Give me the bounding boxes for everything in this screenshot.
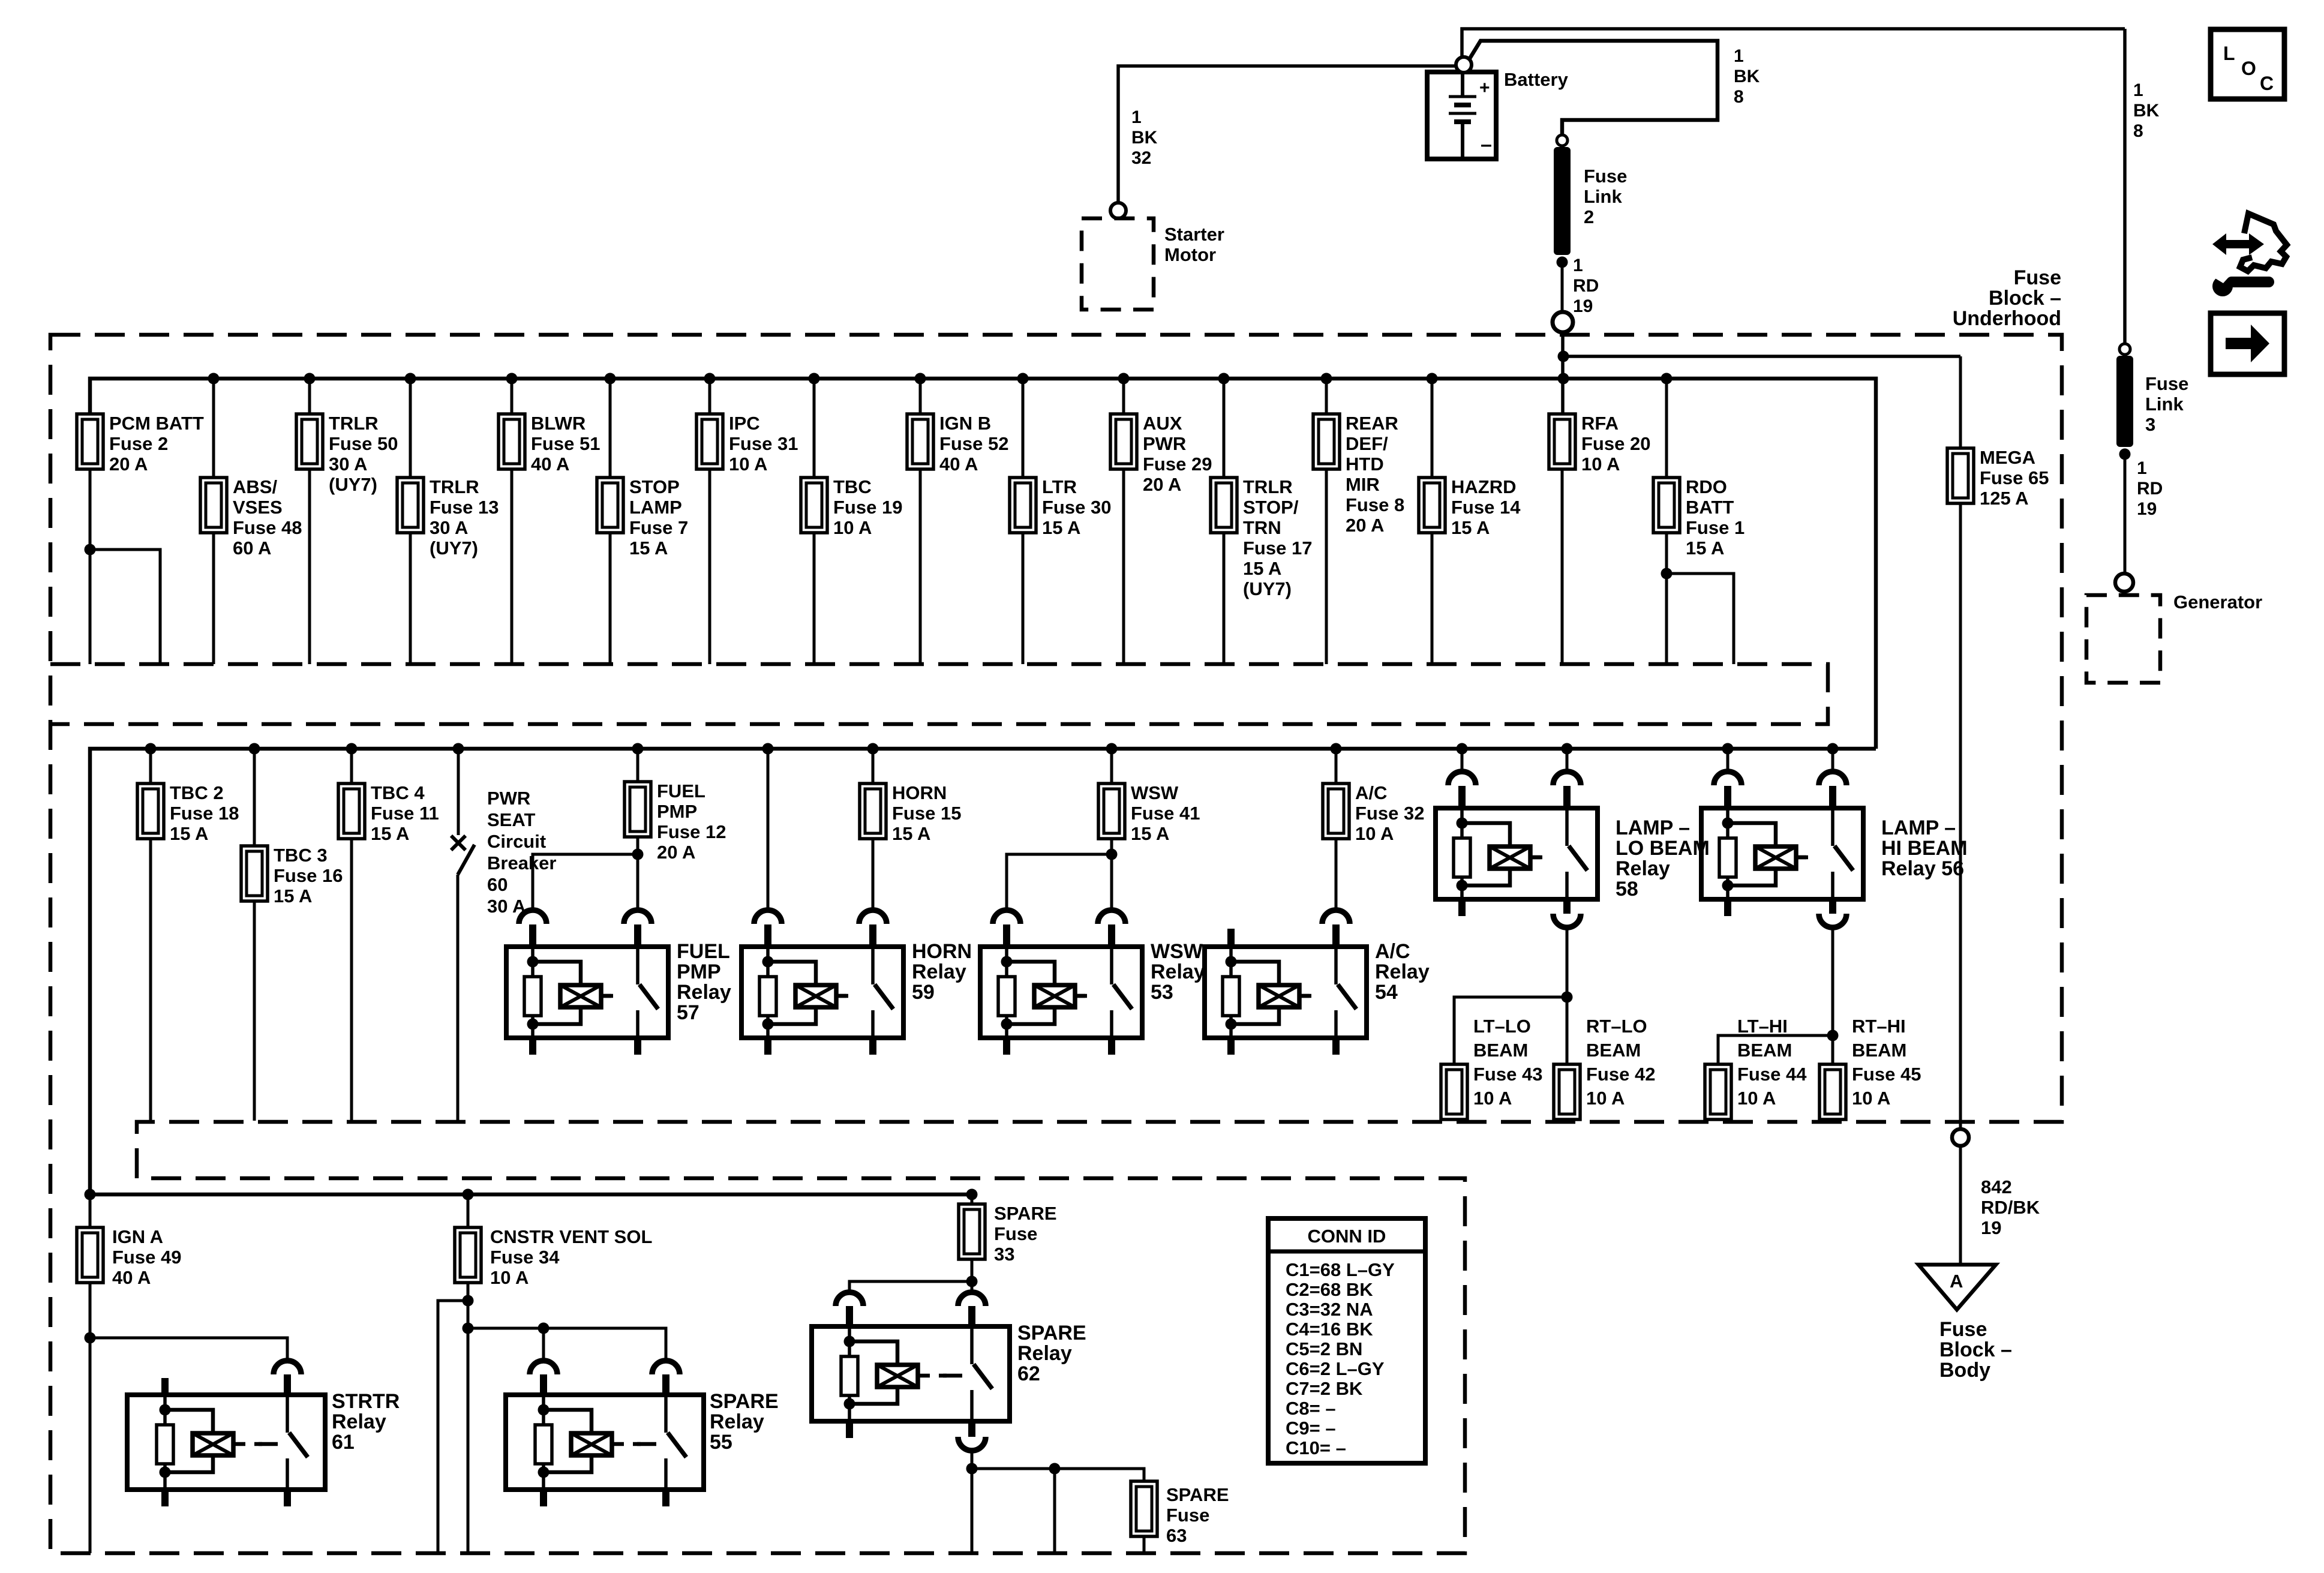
relay 57 FUEL PMP [506, 910, 668, 1055]
wire relay 56 output to HI BEAM fuses [1831, 927, 1834, 1064]
wire battery to fuse link 3 (top) [1462, 29, 2125, 57]
relay 61 bottom stubs [161, 1490, 169, 1506]
generator terminal [2115, 574, 2133, 592]
relay 54 A/C [1205, 910, 1367, 1055]
svg-text:–: – [1481, 133, 1492, 156]
wire fuse F8 [1325, 379, 1328, 414]
relay 58 LAMP - LO BEAM [1436, 743, 1598, 928]
svg-text:Battery: Battery [1504, 69, 1569, 90]
fuse F41 WSW [1098, 784, 1125, 839]
fuse link 3 terminal [2119, 344, 2130, 355]
LOC icon box [2211, 29, 2284, 99]
svg-text:C3=32 NA: C3=32 NA [1286, 1299, 1373, 1320]
bus 1 [90, 379, 1876, 749]
fuse F33 SPARE [959, 1204, 985, 1259]
generator (dashed box) [2086, 595, 2160, 683]
relay 62 SPARE [812, 1292, 1010, 1421]
wire fuse F45 RT-HI BEAM to edge [1831, 1119, 1834, 1121]
wire fuse F44 LT-HI BEAM to edge [1717, 1119, 1720, 1121]
fuse F51 BLWR [499, 414, 525, 469]
battery positive terminal [1456, 57, 1472, 73]
svg-text:C1=68 L–GY: C1=68 L–GY [1286, 1259, 1395, 1280]
relay 62 bottom stubs + output [846, 1421, 853, 1438]
wire PCM BATT branch [89, 469, 92, 664]
fuse F11 TBC 4 [338, 784, 365, 839]
node: fuse link 2 output [1557, 257, 1568, 268]
svg-text:CONN ID: CONN ID [1308, 1226, 1386, 1247]
fuse F20 RFA [1549, 414, 1575, 469]
fuse F19 TBC [801, 478, 827, 533]
svg-text:+: + [1479, 78, 1490, 98]
svg-text:C6=2 L–GY: C6=2 L–GY [1286, 1358, 1385, 1379]
fuse F48 ABS/VSES [200, 478, 227, 533]
wire relay 62 output [971, 1451, 974, 1553]
node on bus 1 [1558, 373, 1569, 385]
wire fuse 63 to edge [1143, 1536, 1146, 1553]
wire 842 RD/BK 19 [1959, 1146, 1962, 1265]
Fuse Block - Underhood outline (dashed) [50, 335, 2062, 1553]
wire fuse F42 RT-LO BEAM to edge [1566, 1119, 1569, 1121]
fuse F50 TRLR [296, 414, 323, 469]
relay 56 LAMP - HI BEAM [1701, 743, 1863, 928]
svg-text:Generator: Generator [2173, 592, 2262, 613]
wire fuse F18 TBC 2 [149, 749, 152, 784]
fuse F34 CNSTR VENT SOL [455, 1227, 481, 1283]
fuse F32 A/C [1323, 784, 1349, 839]
fuse F17 TRLR STOP/TRN [1211, 478, 1237, 533]
fuse F1 RDO BATT [1653, 478, 1680, 533]
wire inlet to bus 1 [1561, 332, 1565, 414]
wire RDO BATT branch [1665, 379, 1668, 478]
fuse link 2 [1554, 147, 1571, 255]
wire fuse F12 FUEL PMP feed [636, 749, 639, 782]
fuse F31 IPC [696, 414, 723, 469]
wire fuse F43 LT-LO BEAM to edge [1453, 1119, 1456, 1121]
wire fuse F33 SPARE [971, 1194, 974, 1204]
bus 3 [90, 1193, 977, 1197]
fuse F44 LT-HI BEAM [1705, 1064, 1731, 1119]
fuse F52 IGN B [907, 414, 933, 469]
svg-text:L: L [2223, 43, 2235, 64]
wire fuse F13 [409, 379, 412, 478]
svg-text:C5=2 BN: C5=2 BN [1286, 1338, 1362, 1359]
wire fuse F52 [919, 379, 922, 414]
svg-text:C: C [2260, 73, 2274, 94]
inner dashed separation (box1 bottom / box2 top) [50, 664, 1828, 724]
next-page arrow icon box [2211, 313, 2284, 374]
starter motor (dashed box) [1082, 218, 1154, 310]
wire fuse F17 [1223, 379, 1226, 478]
wire fuse F50 [308, 379, 311, 414]
svg-text:C9= –: C9= – [1286, 1418, 1336, 1439]
fuse F43 LT-LO BEAM [1441, 1064, 1467, 1119]
fuse F16 TBC 3 [241, 846, 268, 901]
wire fuse F16 TBC 3 [253, 749, 256, 846]
wire fuse F48 [212, 379, 215, 478]
svg-text:O: O [2241, 58, 2256, 79]
battery [1427, 72, 1496, 159]
svg-text:StarterMotor: StarterMotor [1164, 224, 1224, 265]
svg-text:C7=2 BK: C7=2 BK [1286, 1378, 1363, 1399]
fuse F18 TBC 2 [137, 784, 164, 839]
wire IGN A branch to relay 61 [90, 1338, 287, 1361]
node: fuse link 3 output [2119, 449, 2131, 460]
relay 55 SPARE [506, 1361, 704, 1490]
wire fuse F15 HORN feed [872, 749, 875, 784]
bus 2 [90, 749, 1876, 1194]
wire CNSTR branch to relay 55 [468, 1328, 666, 1361]
fuse F49 IGN A [77, 1227, 103, 1283]
wire fuse link 2 to fuse block [1561, 262, 1564, 313]
circuit breaker 60 PWR SEAT [451, 743, 475, 1121]
svg-text:C2=68 BK: C2=68 BK [1286, 1279, 1373, 1300]
fuse F45 RT-HI BEAM [1819, 1064, 1846, 1119]
relay 55 bottom stubs [540, 1490, 547, 1506]
svg-text:C10= –: C10= – [1286, 1437, 1346, 1458]
wire fuse F14 [1431, 379, 1434, 478]
wire jog to relay coil [533, 854, 638, 911]
wire fuse F31 [708, 379, 711, 414]
fuse block body connector A (triangle) [1918, 1265, 1996, 1310]
wire fuse F19 [813, 379, 816, 478]
fuse F63 SPARE [1131, 1481, 1157, 1536]
fuse F13 TRLR [397, 478, 424, 533]
relay 59 HORN [741, 910, 903, 1055]
fuse F29 AUX PWR [1110, 414, 1137, 469]
starter motor terminal [1110, 203, 1126, 218]
wire battery to starter motor [1118, 66, 1456, 203]
node: feed junction above bus 1 [1558, 351, 1569, 362]
fuse link 3 [2116, 356, 2133, 447]
wire fuse F49 IGN A [89, 1194, 92, 1227]
wire fuse F11 TBC 4 [350, 749, 353, 784]
wire fuse F51 [511, 379, 514, 414]
fuse F30 LTR [1010, 478, 1036, 533]
wire feed to MEGA fuse [1563, 355, 1960, 358]
fuse F8 REAR DEF/HTD MIR [1313, 414, 1340, 469]
fuse F65 MEGA [1947, 448, 1974, 503]
fuse F42 RT-LO BEAM [1554, 1064, 1580, 1119]
svg-text:C8= –: C8= – [1286, 1398, 1336, 1419]
wire relay 59 coil feed [767, 749, 770, 911]
fuse F15 HORN [860, 784, 886, 839]
svg-text:A: A [1950, 1271, 1963, 1292]
wire fuse F30 [1022, 379, 1025, 478]
wire fuse F7 [609, 379, 612, 478]
wire MEGA fuse [1959, 356, 1962, 448]
wire jog to relay coil [1007, 854, 1112, 911]
svg-text:C4=16 BK: C4=16 BK [1286, 1319, 1373, 1340]
CONN ID table [1268, 1218, 1425, 1463]
fuse link 2 terminal [1557, 135, 1568, 146]
fuse F12 FUEL PMP [624, 782, 651, 837]
outlet terminal (842 RD/BK) [1952, 1129, 1969, 1146]
wire fuse F41 WSW feed [1110, 749, 1113, 784]
wire relay 58 output to LO BEAM fuses [1566, 927, 1569, 1064]
wire fuse F32 A/C feed [1335, 749, 1338, 784]
wire battery to fuse link 2 [1469, 41, 1718, 135]
fuse block inlet terminal [1553, 312, 1573, 332]
relay 61 STRTR [127, 1361, 325, 1490]
relay 53 WSW [980, 910, 1142, 1055]
wire fuse F29 [1122, 379, 1125, 414]
fuse F2 PCM BATT [77, 414, 103, 469]
svg-text:LAMP –HI BEAMRelay 56: LAMP –HI BEAMRelay 56 [1881, 816, 1968, 880]
wire jog to relay 62 coil [849, 1281, 972, 1293]
wire fuse F34 CNSTR VENT SOL [467, 1194, 470, 1227]
fuse F7 STOP LAMP [597, 478, 623, 533]
wire RFA [1561, 469, 1564, 664]
wire to fuse link 3 [2123, 29, 2127, 344]
fuse F14 HAZRD [1419, 478, 1445, 533]
service/underhood icon (arrows + wrench) [2211, 214, 2287, 296]
wire fuse link 3 to generator [2124, 454, 2127, 574]
